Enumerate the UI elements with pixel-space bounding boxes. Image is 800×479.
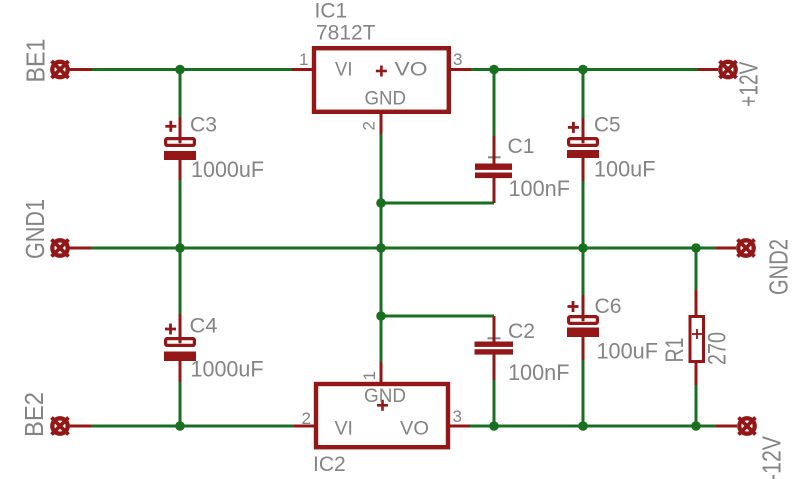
svg-text:7812T: 7812T	[316, 22, 376, 45]
svg-text:GND2: GND2	[764, 239, 794, 295]
svg-text:VO: VO	[395, 60, 428, 81]
svg-text:IC2: IC2	[313, 453, 346, 476]
svg-text:1000uF: 1000uF	[191, 157, 264, 182]
svg-text:C3: C3	[190, 114, 217, 137]
svg-text:+12V: +12V	[734, 61, 764, 106]
svg-text:2: 2	[302, 409, 311, 428]
svg-text:C2: C2	[508, 320, 535, 343]
svg-text:GND: GND	[365, 89, 407, 110]
svg-text:IC1: IC1	[315, 0, 348, 23]
svg-text:2: 2	[360, 121, 379, 130]
svg-text:C4: C4	[190, 315, 218, 338]
svg-text:R1: R1	[661, 338, 689, 363]
svg-text:VI: VI	[335, 418, 354, 439]
svg-text:BE2: BE2	[19, 392, 49, 437]
svg-text:-12V: -12V	[757, 435, 787, 479]
svg-text:GND1: GND1	[20, 199, 50, 259]
svg-text:C6: C6	[595, 295, 622, 318]
svg-text:C5: C5	[594, 114, 621, 137]
svg-text:100uF: 100uF	[597, 338, 659, 363]
svg-text:BE1: BE1	[21, 39, 51, 83]
svg-text:3: 3	[453, 407, 462, 426]
svg-text:VO: VO	[400, 418, 429, 439]
svg-text:270: 270	[704, 332, 732, 365]
svg-text:C1: C1	[508, 135, 535, 158]
svg-text:3: 3	[453, 50, 462, 69]
svg-text:100nF: 100nF	[509, 176, 571, 201]
svg-text:1000uF: 1000uF	[191, 356, 264, 381]
svg-text:100nF: 100nF	[508, 360, 570, 385]
svg-text:VI: VI	[335, 60, 353, 81]
svg-text:1: 1	[299, 50, 308, 69]
svg-text:100uF: 100uF	[594, 157, 656, 182]
svg-text:1: 1	[360, 371, 379, 380]
svg-text:GND: GND	[364, 386, 406, 407]
